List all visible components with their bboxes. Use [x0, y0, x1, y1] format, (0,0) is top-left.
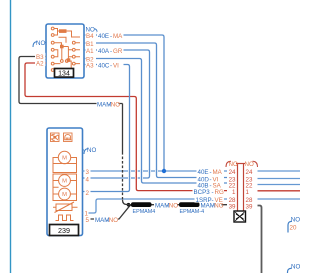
- relay 134 label plate: [55, 69, 74, 78]
- svg-text:M: M: [62, 179, 67, 185]
- svg-text:39: 39: [229, 203, 236, 210]
- svg-text:NO: NO: [169, 203, 178, 210]
- wire label 40E-MA on B4: [97, 32, 124, 39]
- wire 24 right: [258, 170, 301, 172]
- wire: long vertical net at left edge: [10, 0, 12, 273]
- svg-text:EPMAM4: EPMAM4: [133, 209, 156, 215]
- wire 28 right: [258, 198, 301, 200]
- pin B3: [35, 53, 46, 59]
- label 1SRP-VE before pin 28: [195, 196, 225, 203]
- svg-text:3: 3: [86, 169, 90, 176]
- svg-text:1: 1: [246, 189, 250, 196]
- connector 28 housing: [236, 164, 245, 211]
- svg-text:M: M: [62, 192, 67, 198]
- label BCP3-RG before pin 1: [193, 188, 225, 195]
- 239 pin numbers: [84, 168, 91, 224]
- svg-text:4: 4: [86, 176, 90, 183]
- svg-text:20: 20: [290, 225, 297, 232]
- label 40B-SA before pin 22: [197, 181, 225, 188]
- svg-text:239: 239: [58, 226, 70, 235]
- wire label 40C-VI on A3: [97, 61, 124, 68]
- relay 134 internals: [51, 27, 80, 71]
- net 40E: 239 pin3 to connector pin 24: [83, 170, 228, 172]
- wire A2 (red) from relay left: [25, 63, 227, 191]
- svg-text:MA: MA: [213, 169, 223, 176]
- relay right pin letters: [86, 32, 97, 70]
- svg-text:39: 39: [246, 203, 253, 210]
- svg-text:VE: VE: [215, 197, 223, 204]
- svg-text:NO: NO: [109, 217, 118, 224]
- svg-text:RG: RG: [215, 189, 224, 196]
- svg-text:-: -: [212, 189, 214, 196]
- splice EPMAM-4: [179, 202, 200, 207]
- wire B2: [84, 59, 227, 184]
- connector 28 pin numbers, left column: [229, 169, 236, 210]
- svg-text:EPMAM-4: EPMAM-4: [180, 209, 205, 215]
- svg-text:40E: 40E: [98, 33, 109, 40]
- svg-text:40C: 40C: [98, 62, 110, 69]
- label MAM-NO on black wire: [97, 100, 119, 107]
- wire MAM from 239 pin5: [91, 206, 134, 220]
- svg-text:134: 134: [58, 71, 70, 78]
- 239 motor M2: [53, 174, 77, 201]
- wire A3: [83, 65, 130, 192]
- label 40D-VI before pin 23: [197, 175, 225, 182]
- svg-text:-: -: [212, 197, 214, 204]
- svg-text:2: 2: [86, 190, 90, 197]
- svg-text:NO: NO: [36, 40, 45, 47]
- wire B4 (blue) relay right, down to junction: [84, 35, 164, 169]
- svg-text:1SRP: 1SRP: [196, 197, 212, 204]
- svg-text:NO: NO: [291, 217, 300, 224]
- label MAM-NO on pin5 wire: [94, 216, 118, 223]
- connector fragment NO (bottom corner): [288, 264, 301, 273]
- net 1SRP: 239 pin1 jog to connector pin 28: [83, 199, 228, 213]
- 239 variable resistor: [53, 202, 78, 213]
- svg-text:-: -: [210, 169, 212, 176]
- wire 22 right: [258, 184, 301, 186]
- svg-text:-: -: [110, 62, 112, 69]
- relay U134 box: [46, 24, 84, 78]
- svg-text:NO: NO: [291, 264, 300, 271]
- splice EPMAM4: [131, 202, 152, 207]
- svg-text:B4: B4: [86, 33, 94, 40]
- svg-text:M: M: [62, 156, 67, 162]
- svg-text:A2: A2: [36, 61, 44, 68]
- wire A1, becomes 40B-SA line: [83, 50, 150, 178]
- svg-text:-: -: [110, 33, 112, 40]
- net MAM: to connector pin 39: [127, 204, 227, 206]
- wire 39 right, gray, down to bottom: [258, 206, 262, 273]
- svg-text:NO: NO: [87, 147, 96, 154]
- connector bracket NO (right of 239): [84, 149, 88, 154]
- svg-text:-: -: [110, 48, 112, 55]
- svg-text:MA: MA: [113, 33, 123, 40]
- svg-text:GR: GR: [113, 48, 123, 55]
- svg-text:A3: A3: [86, 62, 94, 69]
- 239 label plate: [50, 225, 79, 236]
- connector fragment NO 20 (bottom right): [288, 217, 300, 233]
- wire label 40A-GR on A1: [97, 47, 124, 54]
- svg-text:BCP3: BCP3: [194, 189, 211, 196]
- svg-text:24: 24: [246, 169, 253, 176]
- connector bracket arcs + NO labels: [226, 161, 231, 167]
- blower unit 239 box: [47, 128, 83, 236]
- svg-text:40E: 40E: [198, 169, 209, 176]
- wire 1 right (red): [258, 190, 301, 192]
- label MAM-NO before pin 39: [200, 201, 222, 208]
- svg-text:A1: A1: [86, 48, 94, 55]
- 239 fan icon: [51, 133, 60, 142]
- connector bracket NO (left of 134): [33, 42, 37, 47]
- svg-text:NO: NO: [111, 101, 120, 108]
- pin A2: [35, 60, 46, 66]
- svg-text:B1: B1: [86, 41, 94, 48]
- wire 23 right: [258, 178, 301, 180]
- svg-text:NO: NO: [229, 161, 238, 168]
- connector id plate (X box): [234, 211, 246, 222]
- 239 PWM symbol: [56, 215, 74, 221]
- 239 heater icon: [64, 133, 73, 142]
- svg-text:VI: VI: [113, 62, 119, 69]
- label MAM-NO between splices: [154, 201, 177, 208]
- svg-text:NO: NO: [245, 161, 254, 168]
- junction dot B4/40E: [162, 169, 166, 173]
- 239 motor M1: [53, 151, 77, 172]
- connector 28 pin numbers, right column: [246, 169, 253, 210]
- wire B1: [84, 43, 227, 178]
- wire B3 (black MAM) from relay left: [19, 57, 123, 104]
- svg-text:40A: 40A: [98, 48, 110, 55]
- wire crossing gaps: [128, 170, 158, 180]
- wire MAM vertical (dash-dot) down from B3 run: [122, 104, 124, 153]
- svg-text:5: 5: [86, 217, 90, 224]
- junction dot MAM: [127, 203, 131, 207]
- label 40E-MA before pin 24: [197, 168, 225, 175]
- 239 motor M3: [53, 187, 77, 200]
- svg-text:1: 1: [232, 189, 236, 196]
- svg-text:24: 24: [229, 169, 236, 176]
